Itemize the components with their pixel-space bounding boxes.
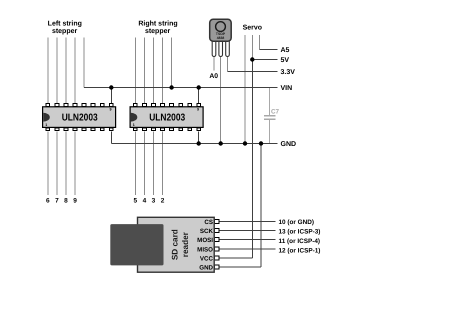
svg-text:2: 2 — [161, 197, 165, 204]
wire SD CS to pin10 — [220, 221, 276, 223]
wire U1 pin8 to GND rail — [110, 132, 112, 144]
wire SD MOSI to pin11 — [220, 239, 276, 241]
svg-text:8: 8 — [64, 197, 68, 204]
svg-text:stepper: stepper — [52, 28, 78, 35]
label 10 (or GND) — [279, 219, 321, 255]
capacitor C7 (optional, greyed) — [264, 88, 276, 144]
wire servo 5V lead — [251, 35, 253, 60]
wire 3.3V stub — [228, 71, 278, 73]
wire right stepper lead 3 — [152, 37, 154, 103]
wire right stepper lead 2 — [143, 37, 145, 103]
label SD pin CS — [197, 219, 213, 272]
wire servo signal lead — [259, 35, 261, 50]
wire right stepper lead 1 — [134, 37, 136, 103]
wire GND rail — [111, 143, 277, 145]
svg-text:5: 5 — [133, 197, 137, 204]
junction VIN / U1 pin9 — [109, 85, 113, 89]
wire U2 pin8 to GND rail — [198, 132, 200, 144]
IC U2 ULN2003 right — [130, 104, 203, 131]
wire right stepper lead 4 — [162, 37, 164, 103]
wire 5V stub — [252, 59, 277, 61]
svg-text:VCC: VCC — [200, 255, 214, 262]
wire right stepper common lead — [171, 37, 173, 87]
svg-text:reader: reader — [181, 231, 190, 257]
svg-text:5V: 5V — [281, 57, 290, 64]
label SD card reader — [171, 229, 191, 260]
svg-text:7: 7 — [55, 197, 59, 204]
svg-text:11 (or ICSP-4): 11 (or ICSP-4) — [279, 238, 321, 245]
wire SD MISO to pin12 — [220, 248, 276, 250]
wire SD VCC horizontal — [220, 257, 253, 259]
wire left stepper lead 3 — [65, 37, 67, 103]
wire TSOP leg1 to A0 — [213, 57, 215, 71]
wire left stepper lead 2 — [56, 37, 58, 103]
SD card — [110, 224, 163, 265]
svg-text:ULN2003: ULN2003 — [62, 113, 98, 124]
svg-text:Left string: Left string — [48, 19, 82, 27]
wire left stepper common lead — [83, 37, 85, 87]
svg-text:1: 1 — [45, 123, 47, 127]
svg-text:4: 4 — [143, 197, 147, 204]
svg-text:9: 9 — [73, 197, 77, 204]
svg-text:13 (or ICSP-3): 13 (or ICSP-3) — [279, 228, 321, 235]
svg-text:10 (or GND): 10 (or GND) — [279, 219, 315, 226]
wire U1 pin3 to arduino 8 — [65, 132, 67, 196]
net wires — [84, 50, 277, 268]
IC U1 ULN2003 left — [43, 104, 116, 131]
wire VIN rail — [84, 87, 277, 89]
junction GND / U2 pin8 — [197, 141, 201, 145]
junction VIN / right stepper common — [169, 85, 173, 89]
wire SD SCK to pin13 — [220, 230, 276, 232]
wire left stepper lead 1 — [47, 37, 49, 103]
svg-text:stepper: stepper — [145, 28, 171, 35]
wire TSOP leg3 down — [227, 57, 229, 72]
junction 5V — [250, 57, 254, 61]
svg-text:VIN: VIN — [281, 85, 293, 92]
svg-text:A0: A0 — [209, 73, 218, 80]
svg-text:MOSI: MOSI — [197, 237, 213, 244]
svg-text:9: 9 — [110, 107, 112, 111]
label left stepper — [48, 19, 82, 35]
svg-text:12 (or ICSP-1): 12 (or ICSP-1) — [279, 248, 321, 255]
wire U2 pin9 drop — [198, 88, 200, 104]
junction GND / servo — [243, 141, 247, 145]
wire 5V to SD VCC vertical — [251, 60, 253, 258]
svg-text:MISO: MISO — [197, 246, 213, 253]
wire left stepper lead 4 — [74, 37, 76, 103]
svg-text:Servo: Servo — [243, 24, 262, 31]
svg-text:CS: CS — [204, 219, 213, 226]
wire A5 stub — [260, 49, 278, 51]
junction GND / SD card — [259, 141, 263, 145]
wire U1 pin9 drop — [110, 88, 112, 104]
wire TSOP leg2 to GND — [220, 57, 222, 144]
wire GND to SD GND vertical — [260, 144, 262, 268]
wire U2 pin4 to arduino 2 — [162, 132, 164, 196]
IR receiver TSOP4838 — [210, 19, 232, 56]
wire servo GND lead — [244, 35, 246, 144]
junction VIN / U2 pin9 — [197, 85, 201, 89]
svg-text:ULN2003: ULN2003 — [149, 113, 185, 124]
module SD card reader — [110, 217, 219, 272]
wire U2 pin2 to arduino 4 — [143, 132, 145, 196]
svg-text:6: 6 — [46, 197, 50, 204]
label right stepper — [138, 19, 177, 35]
svg-text:Right string: Right string — [138, 19, 177, 27]
component lead wires — [48, 35, 260, 195]
svg-text:SCK: SCK — [200, 228, 214, 235]
svg-text:3: 3 — [152, 197, 156, 204]
svg-text:A5: A5 — [281, 47, 290, 54]
svg-text:9: 9 — [197, 107, 199, 111]
svg-text:4838: 4838 — [217, 36, 225, 40]
svg-text:C7: C7 — [271, 109, 280, 116]
wire U1 pin2 to arduino 7 — [56, 132, 58, 196]
svg-text:GND: GND — [199, 265, 213, 272]
svg-text:GND: GND — [281, 141, 297, 148]
wire U1 pin4 to arduino 9 — [74, 132, 76, 196]
wire SD GND horizontal — [220, 266, 262, 268]
svg-text:1: 1 — [133, 123, 135, 127]
svg-text:SD card: SD card — [171, 229, 180, 260]
wire U2 pin1 to arduino 5 — [134, 132, 136, 196]
junction GND / TSOP — [219, 141, 223, 145]
wire U2 pin3 to arduino 3 — [152, 132, 154, 196]
wire U1 pin1 to arduino 6 — [47, 132, 49, 196]
svg-text:3.3V: 3.3V — [281, 69, 296, 76]
